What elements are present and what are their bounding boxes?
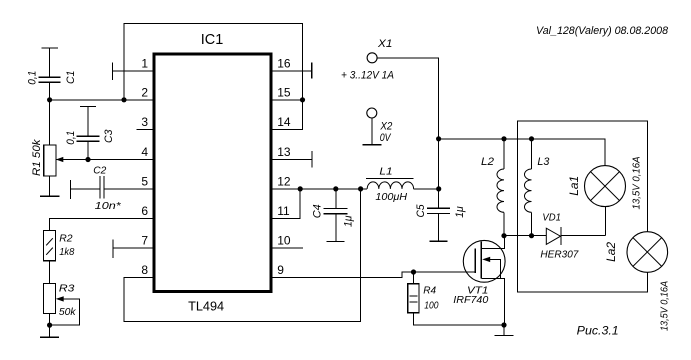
- svg-text:1μ: 1μ: [454, 206, 466, 218]
- ground under X2: [362, 144, 381, 146]
- label R3 value 50k: [59, 306, 76, 318]
- capacitor C4: [324, 189, 348, 242]
- svg-text:L2: L2: [481, 156, 494, 168]
- lamp La1: [585, 166, 626, 207]
- label R2 value 1k8: [59, 246, 74, 258]
- label R4: [423, 285, 436, 297]
- diode VD1 HER307: [504, 227, 606, 245]
- label C1 value 0,1: [26, 71, 38, 85]
- wire pin 9 to VT1 gate: [272, 272, 475, 278]
- wire VD1 to La1: [605, 207, 607, 236]
- node pin12 vertical junction: [358, 186, 363, 191]
- wire pin 2 line: [50, 99, 153, 101]
- svg-text:13: 13: [277, 145, 291, 159]
- svg-text:1μ: 1μ: [343, 216, 355, 228]
- svg-text:IRF740: IRF740: [453, 294, 488, 306]
- svg-text:X2: X2: [380, 120, 393, 132]
- svg-text:13,5V 0,16A: 13,5V 0,16A: [659, 281, 670, 331]
- svg-text:VD1: VD1: [542, 212, 561, 224]
- svg-text:R1 50k: R1 50k: [31, 139, 43, 176]
- pin 13 stub with terminal bar: [272, 151, 312, 168]
- arrow R1 wiper: [56, 157, 64, 162]
- svg-text:5: 5: [141, 174, 148, 188]
- svg-text:R3: R3: [59, 283, 75, 295]
- ground under VT1: [495, 325, 514, 336]
- label C5: [415, 204, 427, 218]
- label La1: [567, 176, 581, 196]
- label C3: [103, 129, 115, 143]
- svg-text:14: 14: [277, 115, 291, 129]
- pin 10 stub: [272, 247, 303, 249]
- label +3..12V 1A: [341, 70, 394, 82]
- svg-text:La1: La1: [567, 176, 581, 196]
- svg-text:C3: C3: [103, 129, 115, 143]
- svg-text:C1: C1: [65, 71, 77, 84]
- svg-text:+ 3..12V 1A: + 3..12V 1A: [341, 70, 394, 82]
- label C2: [93, 164, 106, 176]
- svg-text:3: 3: [141, 115, 148, 129]
- node C5/X1 junction: [436, 186, 441, 191]
- svg-text:C2: C2: [93, 164, 106, 176]
- lamp La2: [627, 232, 668, 273]
- node L3 top junction: [529, 136, 534, 141]
- svg-text:100μH: 100μH: [375, 191, 407, 203]
- node pin15 junction: [300, 97, 305, 102]
- label X2: [380, 120, 393, 132]
- svg-text:11: 11: [277, 204, 290, 218]
- wire L1 to C5 node: [414, 188, 439, 190]
- label C5 value 1μ: [454, 206, 466, 218]
- pin 1 stub with terminal bar: [113, 63, 153, 81]
- wire pin 11 riser to pin 12: [272, 189, 300, 219]
- svg-text:1: 1: [141, 57, 148, 71]
- inductor L1 100uH: [366, 179, 414, 189]
- wire pin 12 line: [272, 188, 367, 190]
- svg-text:13,5V 0,16A: 13,5V 0,16A: [632, 156, 643, 209]
- svg-text:10n*: 10n*: [95, 200, 122, 212]
- svg-text:50k: 50k: [59, 306, 76, 318]
- label C4: [311, 204, 323, 218]
- wire feed line to La1: [439, 139, 605, 166]
- pin numbers 1-8: [141, 57, 148, 278]
- wire La2 loop: [518, 121, 648, 292]
- resistor R2 1k8: [44, 230, 56, 260]
- label La2: [604, 242, 618, 262]
- label VD1 value HER307: [540, 249, 579, 261]
- pin 15 stub: [272, 99, 302, 101]
- node C4 junction: [333, 186, 338, 191]
- svg-text:R2: R2: [59, 232, 72, 244]
- label L1 value 100μH: [375, 191, 407, 203]
- svg-text:La2: La2: [604, 242, 618, 262]
- wire pin 4 line: [56, 159, 153, 161]
- svg-text:C5: C5: [415, 204, 427, 218]
- svg-text:15: 15: [277, 85, 291, 99]
- capacitor C2: [70, 176, 152, 199]
- caption text Рис.3.1: [577, 323, 619, 337]
- pin numbers 16-9: [277, 57, 291, 278]
- label C4 value 1μ: [343, 216, 355, 228]
- svg-text:2: 2: [141, 85, 148, 99]
- node L2 bottom / VT1 drain junction: [501, 233, 506, 238]
- svg-text:0,1: 0,1: [26, 71, 38, 85]
- resistor R3 50k: [44, 284, 56, 326]
- label R2: [59, 232, 72, 244]
- wire top rail pin2 to pins 15-14: [124, 24, 303, 130]
- transistor VT1 IRF740: [463, 236, 505, 325]
- ground under R3: [40, 325, 59, 337]
- node R3 bottom junction: [47, 323, 52, 328]
- label C2 value 10n*: [95, 200, 122, 212]
- svg-text:1k8: 1k8: [59, 246, 74, 258]
- ground under R1: [40, 195, 59, 197]
- label R1 50k: [31, 139, 43, 176]
- connector X1: [367, 53, 439, 189]
- label X2 value 0V: [380, 132, 392, 144]
- IC U1 IC1 TL494: [154, 32, 271, 314]
- label La2 rating 13,5V 0,16A: [659, 281, 670, 331]
- svg-text:Val_128(Valery) 08.08.2008: Val_128(Valery) 08.08.2008: [536, 25, 669, 37]
- pin 7 stub with terminal bar: [113, 240, 153, 259]
- svg-text:L3: L3: [537, 156, 550, 168]
- label La1 rating 13,5V 0,16A: [632, 156, 643, 209]
- wire pin 6 to R2: [50, 219, 153, 231]
- svg-text:0,1: 0,1: [65, 131, 77, 145]
- label R4 value 100: [424, 300, 438, 312]
- label L1: [379, 165, 392, 177]
- node pin11/pin12 junction: [298, 186, 303, 191]
- connector X2: [367, 108, 377, 145]
- capacitor C3: [77, 107, 100, 160]
- label R3: [59, 283, 75, 295]
- svg-text:4: 4: [141, 145, 148, 159]
- node C3/pin4 junction: [85, 157, 90, 162]
- svg-text:6: 6: [141, 204, 148, 218]
- svg-text:C4: C4: [311, 204, 323, 218]
- svg-text:L1: L1: [379, 165, 392, 177]
- capacitor C1: [39, 48, 61, 100]
- label VT1: [467, 285, 488, 297]
- svg-text:0V: 0V: [380, 132, 392, 144]
- label C1: [65, 71, 77, 84]
- node L2 top junction: [501, 136, 506, 141]
- svg-text:Рис.3.1: Рис.3.1: [577, 323, 619, 337]
- label L2: [481, 156, 494, 168]
- label C3 value 0,1: [65, 131, 77, 145]
- title text Val_128: [536, 25, 669, 37]
- wire R2 to R3: [49, 261, 51, 284]
- svg-text:12: 12: [277, 174, 291, 188]
- node R4 top junction: [411, 269, 416, 274]
- pin 16 stub with terminal bar: [272, 63, 312, 79]
- node L3 bottom / VD1 anode junction: [529, 233, 534, 238]
- inductor L3: [524, 139, 531, 236]
- svg-text:100: 100: [424, 300, 438, 312]
- wire pin 8 loop under IC: [124, 189, 361, 322]
- svg-text:TL494: TL494: [188, 300, 224, 314]
- svg-text:IC1: IC1: [201, 32, 224, 48]
- svg-text:HER307: HER307: [540, 249, 579, 261]
- inductor L2: [497, 139, 504, 236]
- resistor R4 100: [408, 272, 504, 325]
- svg-text:10: 10: [277, 234, 291, 248]
- resistor R1 50k: [44, 100, 56, 197]
- node X1/feed junction: [436, 136, 441, 141]
- svg-text:X1: X1: [377, 38, 392, 50]
- pin 3 stub: [136, 128, 152, 130]
- svg-text:7: 7: [141, 234, 148, 248]
- label X1: [377, 38, 392, 50]
- node top-rail/pin2 junction: [121, 97, 126, 102]
- node C1/R1/pin2 junction: [47, 97, 52, 102]
- label L3: [537, 156, 550, 168]
- svg-text:8: 8: [141, 263, 148, 277]
- label VT1 value IRF740: [453, 294, 488, 306]
- capacitor C5: [427, 189, 450, 241]
- svg-text:9: 9: [277, 263, 284, 277]
- svg-text:R4: R4: [423, 285, 436, 297]
- svg-text:16: 16: [277, 57, 291, 71]
- label VD1: [542, 212, 561, 224]
- node VT1 source junction: [501, 322, 506, 327]
- arrow R3 wiper with wire loop: [50, 296, 80, 325]
